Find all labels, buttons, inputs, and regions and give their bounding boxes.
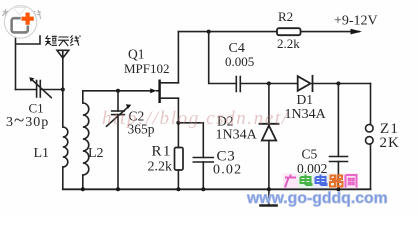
node: detector node (C4/D2/D1) (267, 82, 271, 86)
node: C5 tap (336, 82, 340, 86)
label Z1 (380, 121, 399, 137)
wire: bottom ground rail (63, 188, 371, 190)
label MPF102 (124, 61, 170, 76)
label L2 (88, 146, 104, 161)
label L1 (34, 146, 50, 161)
svg-text:1N34A: 1N34A (216, 128, 258, 143)
svg-text:2.2k: 2.2k (148, 160, 173, 175)
svg-text:C1: C1 (29, 101, 44, 116)
capacitor C5 0.002 (330, 157, 348, 162)
label R1 value 2.2k (148, 160, 173, 175)
label R2 (278, 9, 293, 24)
label C1 (29, 101, 44, 116)
svg-text:L2: L2 (88, 146, 104, 161)
wire: C4 to detector node (240, 83, 269, 85)
svg-text:R1: R1 (152, 144, 172, 160)
inductor L1 (63, 127, 68, 167)
label R1 (152, 144, 172, 160)
wire: antenna lead down (62, 58, 64, 127)
watermark: faint hidden text 长天线 top-left (3, 9, 42, 19)
svg-text:http://blog.csdn.net/: http://blog.csdn.net/ (102, 108, 289, 129)
wire: L2 top lead (82, 91, 84, 103)
svg-text:www.go-gddq.com: www.go-gddq.com (246, 190, 388, 207)
label C5 (302, 147, 318, 162)
svg-text:Q1: Q1 (128, 47, 145, 62)
svg-text:MPF102: MPF102 (124, 61, 170, 76)
svg-text:+9-12V: +9-12V (334, 14, 378, 29)
label C5 value 0.002 (297, 161, 327, 176)
diode D2 1N34A (260, 124, 279, 141)
wire: C2 top lead (117, 91, 119, 111)
wire: D2 to bottom rail (268, 141, 270, 190)
wire: R2 to +9-12V arrow (301, 29, 362, 35)
wire: tap to C3 (178, 123, 203, 158)
wire: L1 to bottom rail (62, 167, 64, 189)
label Q1 (128, 47, 145, 62)
wire: output down to Z1 (370, 84, 372, 125)
wire: top supply rail (178, 31, 276, 33)
label D1 value 1N34A (285, 107, 327, 122)
watermark www.go-gddq.com (246, 190, 388, 207)
capacitor C2 (variable 365p) (107, 104, 132, 126)
wire: C5 top lead (337, 84, 339, 157)
earphone Z1 2K (366, 124, 374, 144)
node A: antenna / C1 junction (61, 88, 65, 92)
resistor R1 (175, 148, 184, 171)
transistor Q1 MPF102 (JFET) (150, 80, 178, 104)
label Z1 value 2K (380, 135, 400, 151)
wire: hidden long-antenna lead under logo (16, 36, 41, 90)
label C3 value 0.02 (213, 163, 242, 178)
capacitor C3 0.02 (193, 158, 213, 163)
wire: L2 to bottom rail (82, 175, 84, 189)
svg-text:0.005: 0.005 (225, 54, 254, 69)
svg-text:2K: 2K (380, 135, 400, 151)
wire: R1 to bottom rail (177, 170, 179, 189)
wire: C3 to bottom rail (202, 162, 204, 189)
wire: drain up to supply rail (177, 32, 179, 83)
svg-text:D1: D1 (297, 92, 314, 107)
svg-text:2.2k: 2.2k (277, 36, 300, 51)
wire: C2 bottom lead (117, 115, 119, 190)
antenna symbol (short antenna) (57, 50, 69, 58)
svg-text:0.02: 0.02 (213, 163, 242, 178)
wire: node down to D2 (268, 84, 270, 124)
ground (261, 189, 277, 205)
watermark 广电电器网 (colored CJK) (283, 174, 358, 189)
node: C4 tap on supply rail (207, 30, 211, 34)
node: rail junction dots (81, 187, 341, 191)
svg-text:R2: R2 (278, 9, 293, 24)
inductor L2 (83, 103, 89, 175)
svg-text:C5: C5 (302, 147, 318, 162)
resistor R2 (277, 28, 301, 35)
label D2 (217, 114, 234, 129)
wire: Z1 to bottom rail (370, 144, 372, 189)
wire: D1 to output corner (313, 83, 371, 85)
wire: source down to R1 (177, 98, 179, 147)
label C4 (229, 41, 245, 56)
label C4 value 0.005 (225, 54, 254, 69)
label C2 (129, 109, 145, 124)
node: C2 top junction (116, 89, 120, 93)
label 365p (128, 122, 155, 137)
wire: node to D1 (269, 83, 298, 85)
label R2 value 2.2k (277, 36, 300, 51)
node: source / C3 tap (176, 121, 180, 125)
wire: C5 bottom lead (337, 162, 339, 190)
diode D1 1N34A (298, 76, 313, 91)
label C3 (217, 149, 236, 165)
capacitor C4 0.005 (236, 77, 240, 92)
svg-text:1N34A: 1N34A (285, 107, 327, 122)
capacitor C1 (trimmer 3~30p) (29, 77, 51, 97)
wire: C1 left lead (16, 89, 37, 91)
wire: tank top / gate wire (83, 90, 151, 92)
label 3~30p (6, 110, 49, 131)
wire: tap down to C4 (209, 32, 237, 84)
watermark csdn blog (102, 108, 289, 129)
svg-text:L1: L1 (34, 146, 50, 161)
label 短天线 (short antenna, CJK drawn strokes) (45, 35, 80, 46)
label +9-12V (334, 14, 378, 29)
logo watermark (grey square + orange plus in white circle) (4, 6, 36, 38)
wire: C1 to antenna lead (40, 89, 63, 91)
label D1 (297, 92, 314, 107)
label D2 value 1N34A (216, 128, 258, 143)
